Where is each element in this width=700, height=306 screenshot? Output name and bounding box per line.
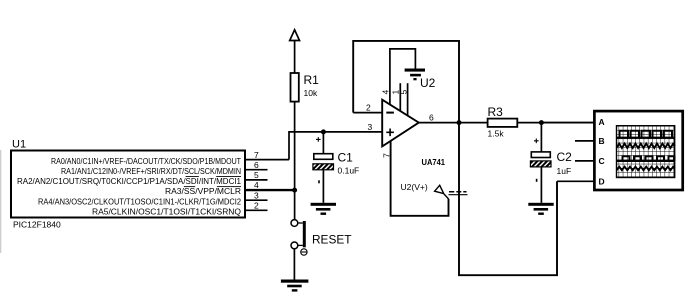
svg-text:UA741: UA741	[422, 157, 446, 167]
node output junction	[457, 120, 462, 125]
oscilloscope screen	[617, 126, 675, 178]
svg-text:D: D	[599, 176, 605, 186]
wire channel B stub	[575, 140, 594, 142]
svg-text:U2(V+): U2(V+)	[401, 182, 428, 192]
svg-text:1uF: 1uF	[557, 166, 572, 176]
wire pin 3 stub	[245, 199, 268, 201]
op-amp pin 1 stub	[399, 83, 401, 111]
svg-text:3: 3	[368, 122, 373, 132]
node C1 junction	[321, 129, 326, 134]
ground RESET	[281, 280, 309, 292]
svg-text:A: A	[599, 117, 605, 127]
wire VCC to R1	[294, 41, 296, 74]
op-amp pin 7 wire to V+ flag	[391, 141, 449, 216]
ground C1	[311, 203, 336, 215]
svg-text:RA3/SS/VPP/MCLR: RA3/SS/VPP/MCLR	[165, 186, 241, 196]
svg-text:0.1uF: 0.1uF	[338, 166, 360, 176]
svg-text:RA4/AN3/OSC2/CLKOUT/T1OSO/C1IN: RA4/AN3/OSC2/CLKOUT/T1OSO/C1IN1-/CLKR/T1…	[38, 196, 241, 206]
svg-text:5: 5	[254, 170, 259, 180]
svg-text:R3: R3	[488, 105, 504, 119]
trace C square wave	[617, 156, 675, 161]
oscilloscope	[594, 111, 682, 190]
svg-text:RA1/AN1/C12IN0-/VREF+/SRI/RX/D: RA1/AN1/C12IN0-/VREF+/SRI/RX/DT/SCL/SCK/…	[61, 166, 241, 176]
ground C2	[528, 203, 553, 215]
svg-text:1.5k: 1.5k	[488, 129, 505, 139]
wire pin7 riser to op-amp input net	[289, 132, 382, 160]
wire pin 7 stub	[245, 159, 289, 161]
svg-text:U2: U2	[420, 76, 436, 90]
wire output down to D channel	[459, 123, 557, 276]
wire pin 4 MCLR	[245, 189, 295, 191]
svg-text:2: 2	[254, 200, 259, 210]
svg-text:C1: C1	[338, 151, 354, 165]
power VCC arrow	[290, 30, 300, 41]
svg-text:10k: 10k	[304, 88, 318, 98]
svg-text:C2: C2	[557, 150, 573, 164]
node MCLR junction	[292, 188, 297, 193]
svg-text:U1: U1	[12, 139, 26, 151]
op-amp pin 4 wire to ground	[390, 49, 416, 105]
svg-text:R1: R1	[304, 73, 320, 87]
node R3/C2 junction	[539, 120, 544, 125]
capacitor C2	[530, 123, 572, 203]
power flag U2(V+)	[401, 182, 468, 199]
trace A square wave	[617, 131, 675, 138]
svg-text:2: 2	[366, 103, 371, 113]
wire channel C stub	[575, 160, 594, 162]
svg-text:7: 7	[254, 150, 259, 160]
svg-text:RA2/AN2/C1OUT/SRQ/T0CKI/CCP1/P: RA2/AN2/C1OUT/SRQ/T0CKI/CCP1/P1A/SDA/SDI…	[17, 176, 241, 186]
svg-text:RESET: RESET	[312, 232, 352, 246]
svg-text:RA0/AN0/C1IN+/VREF-/DACOUT/TX/: RA0/AN0/C1IN+/VREF-/DACOUT/TX/CK/SDO/P1B…	[51, 156, 242, 166]
wire R1 to MCLR node	[294, 102, 296, 191]
trace D wave	[617, 167, 675, 171]
svg-text:C: C	[599, 156, 605, 166]
svg-text:6: 6	[254, 160, 259, 170]
resistor R1	[291, 73, 320, 102]
wire feedback loop	[353, 41, 459, 123]
op-amp pin 5 stub	[407, 83, 409, 115]
wire pin 2 input	[353, 112, 382, 114]
resistor R3	[488, 105, 518, 139]
IC U1 PIC12F1840	[11, 139, 245, 230]
svg-text:5: 5	[398, 90, 408, 95]
wire pin 5 stub	[245, 179, 268, 181]
capacitor C1	[313, 132, 359, 203]
svg-text:B: B	[599, 136, 605, 146]
wire pin 6 stub	[245, 169, 268, 171]
wire op-amp output	[419, 122, 595, 124]
ground U2	[405, 69, 425, 81]
switch RESET	[291, 190, 352, 279]
svg-text:3: 3	[254, 190, 259, 200]
trace B wave	[617, 144, 675, 148]
svg-text:4: 4	[254, 180, 259, 190]
wire channel A	[541, 122, 594, 124]
svg-text:4: 4	[380, 90, 390, 95]
wire pin 2 stub	[245, 209, 268, 211]
svg-text:6: 6	[429, 112, 434, 122]
svg-text:RA5/CLKIN/OSC1/T1OSI/T1CKI/SRN: RA5/CLKIN/OSC1/T1OSI/T1CKI/SRNQ	[92, 206, 241, 216]
op-amp U2	[382, 100, 445, 167]
wire channel D	[557, 180, 594, 182]
svg-text:PIC12F1840: PIC12F1840	[13, 220, 61, 230]
